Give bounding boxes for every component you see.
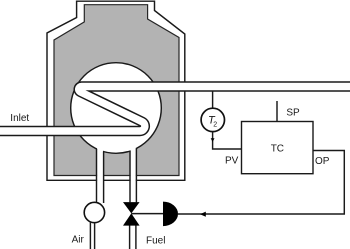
OP signal line xyxy=(178,151,344,215)
temperature transmitter T2 xyxy=(201,108,224,131)
air blower circle xyxy=(84,202,104,222)
furnace outer outline xyxy=(47,1,185,180)
PV signal line xyxy=(213,132,242,149)
air supply pipe (below blower) xyxy=(90,222,94,249)
air riser pipe (into furnace) xyxy=(97,147,104,213)
svg-text:TC: TC xyxy=(271,144,284,155)
fuel supply pipe (below valve) xyxy=(130,226,136,249)
svg-text:OP: OP xyxy=(315,156,330,167)
OP arrowhead xyxy=(200,212,206,217)
signal line from pipe to T2 xyxy=(212,91,214,109)
combustion chamber circle xyxy=(71,63,162,154)
svg-text:PV: PV xyxy=(225,156,239,167)
PV arrowhead xyxy=(211,138,215,142)
controller TC box xyxy=(242,122,314,174)
process coil (inlet - S coil - outlet) xyxy=(0,87,350,132)
furnace refractory (gray) xyxy=(54,5,179,176)
svg-text:SP: SP xyxy=(286,108,300,119)
svg-text:Air: Air xyxy=(72,235,85,246)
SP stub line xyxy=(276,101,278,122)
svg-text:2: 2 xyxy=(213,121,217,128)
svg-text:Inlet: Inlet xyxy=(10,113,29,124)
fuel riser pipe (into furnace) xyxy=(130,148,136,203)
svg-text:Fuel: Fuel xyxy=(146,236,165,247)
valve stem line xyxy=(131,213,163,215)
control valve V1 xyxy=(123,202,140,226)
valve actuator diaphragm xyxy=(163,202,178,227)
